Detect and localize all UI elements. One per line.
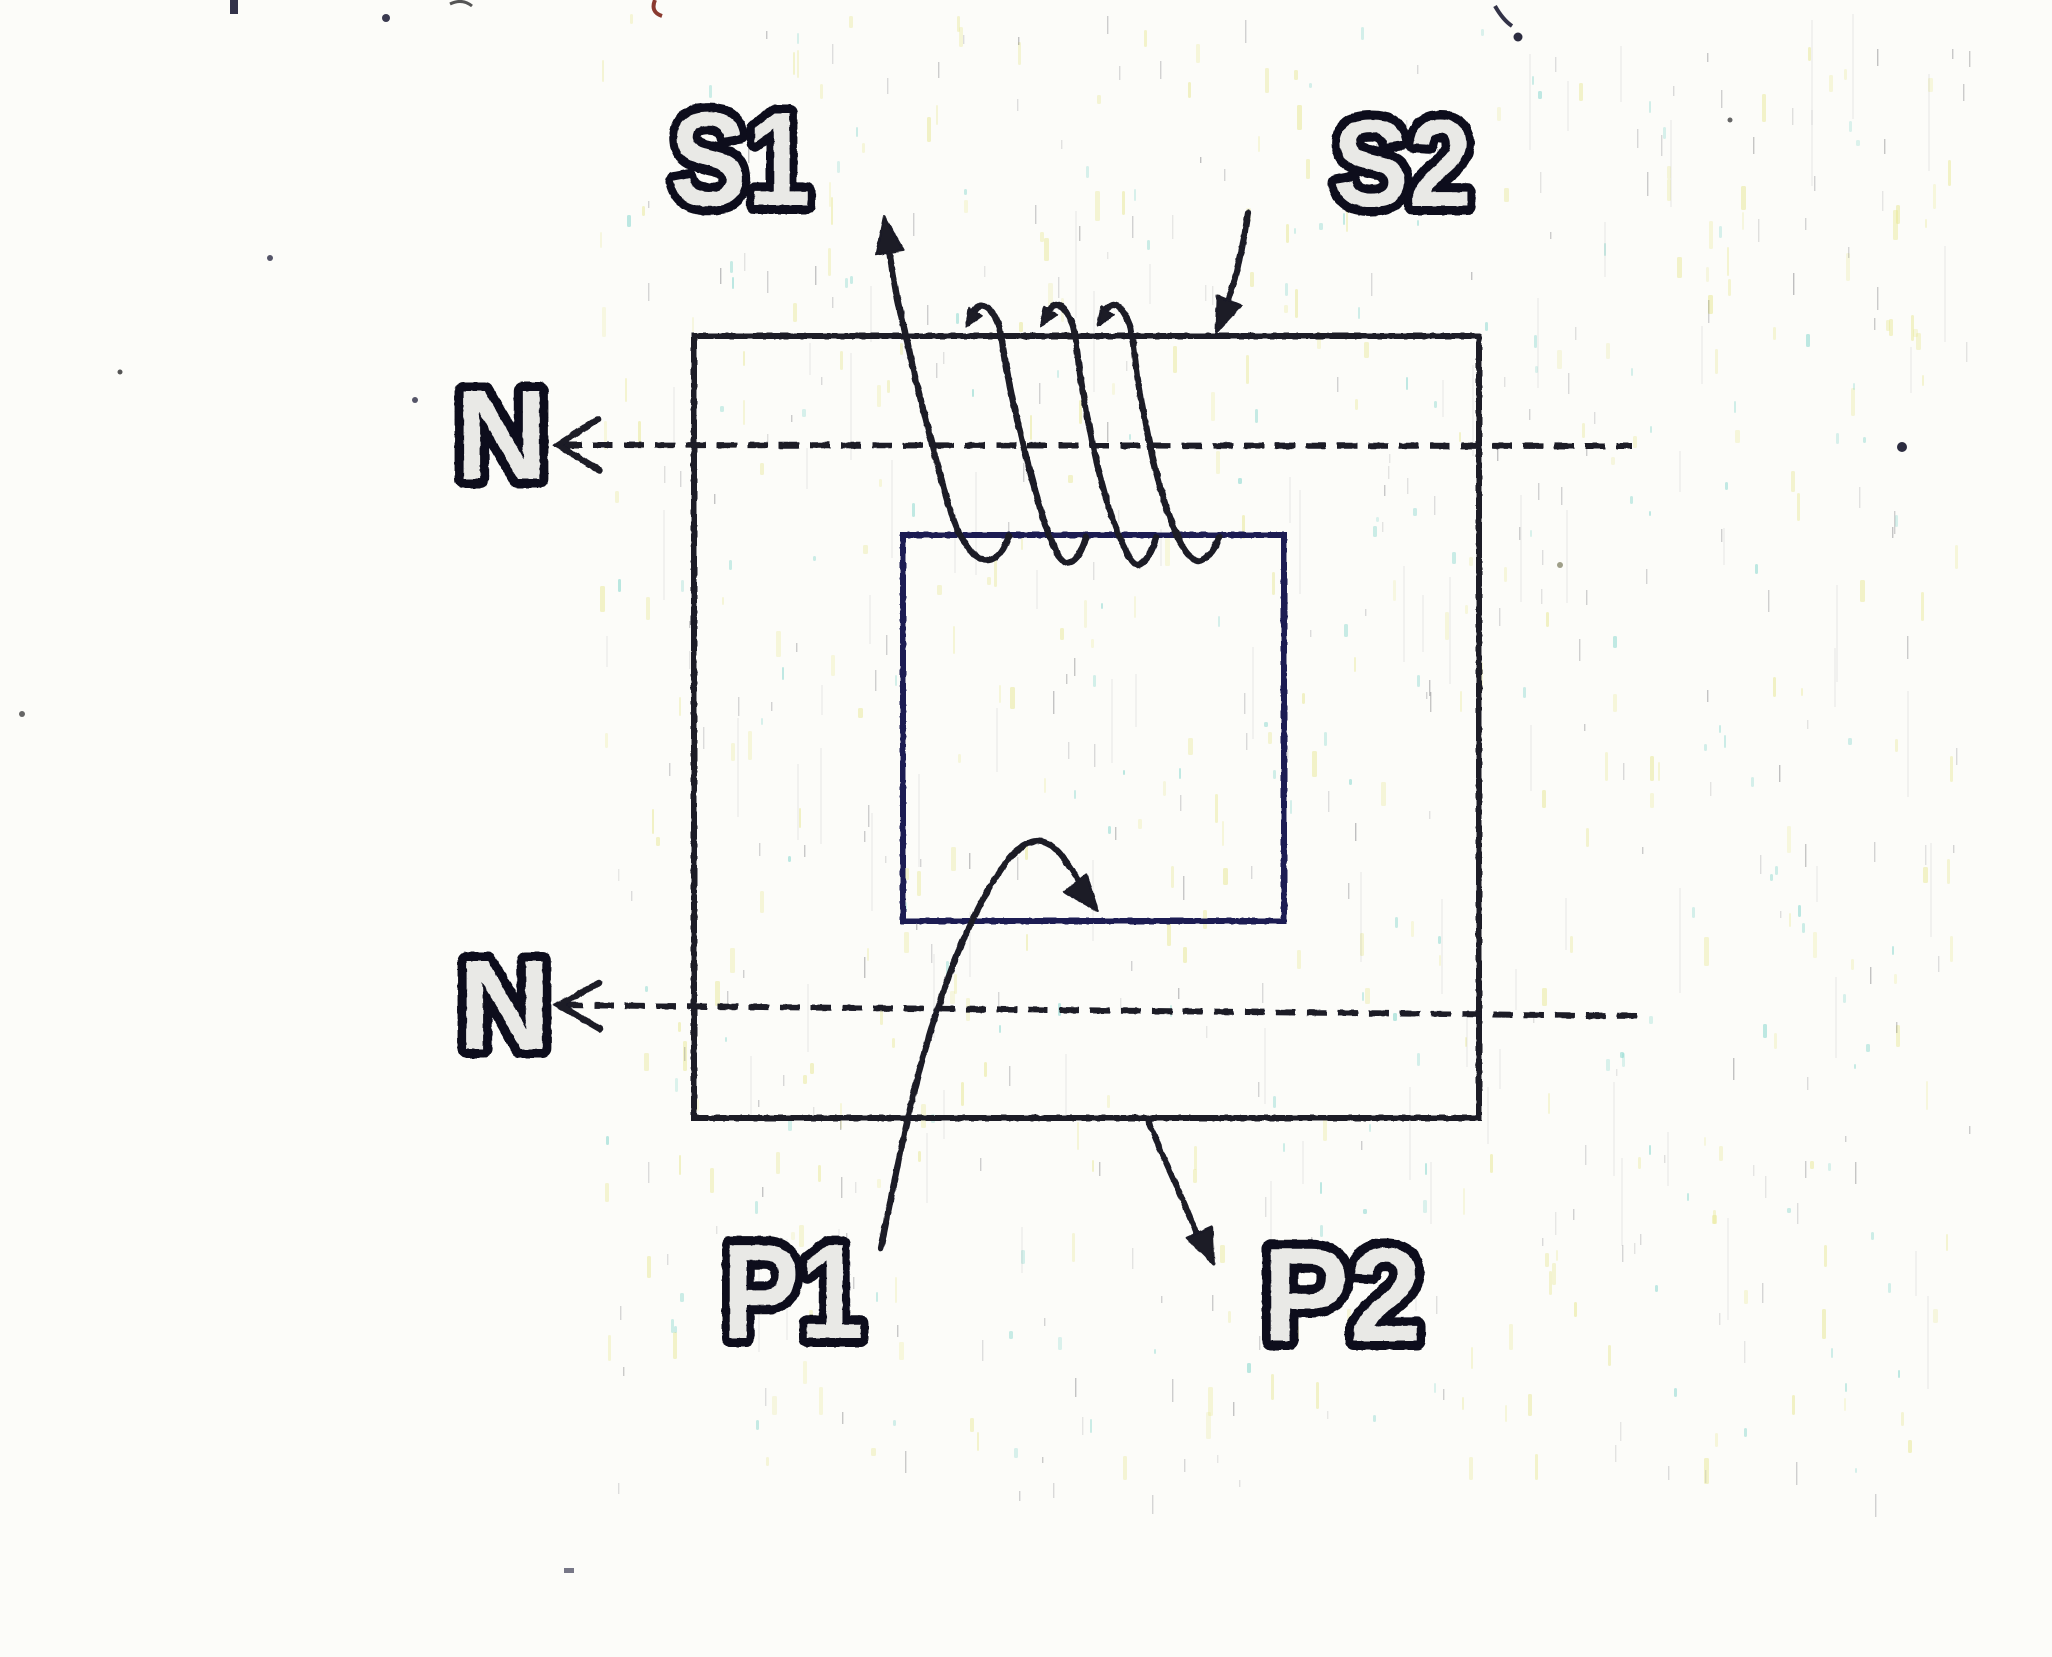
svg-text:N: N (458, 934, 551, 1077)
svg-text:P1: P1 (722, 1216, 864, 1367)
svg-text:P2: P2 (1262, 1221, 1422, 1370)
svg-text:S1: S1 (670, 86, 811, 234)
svg-text:N: N (455, 364, 548, 507)
svg-text:S2: S2 (1333, 96, 1472, 233)
